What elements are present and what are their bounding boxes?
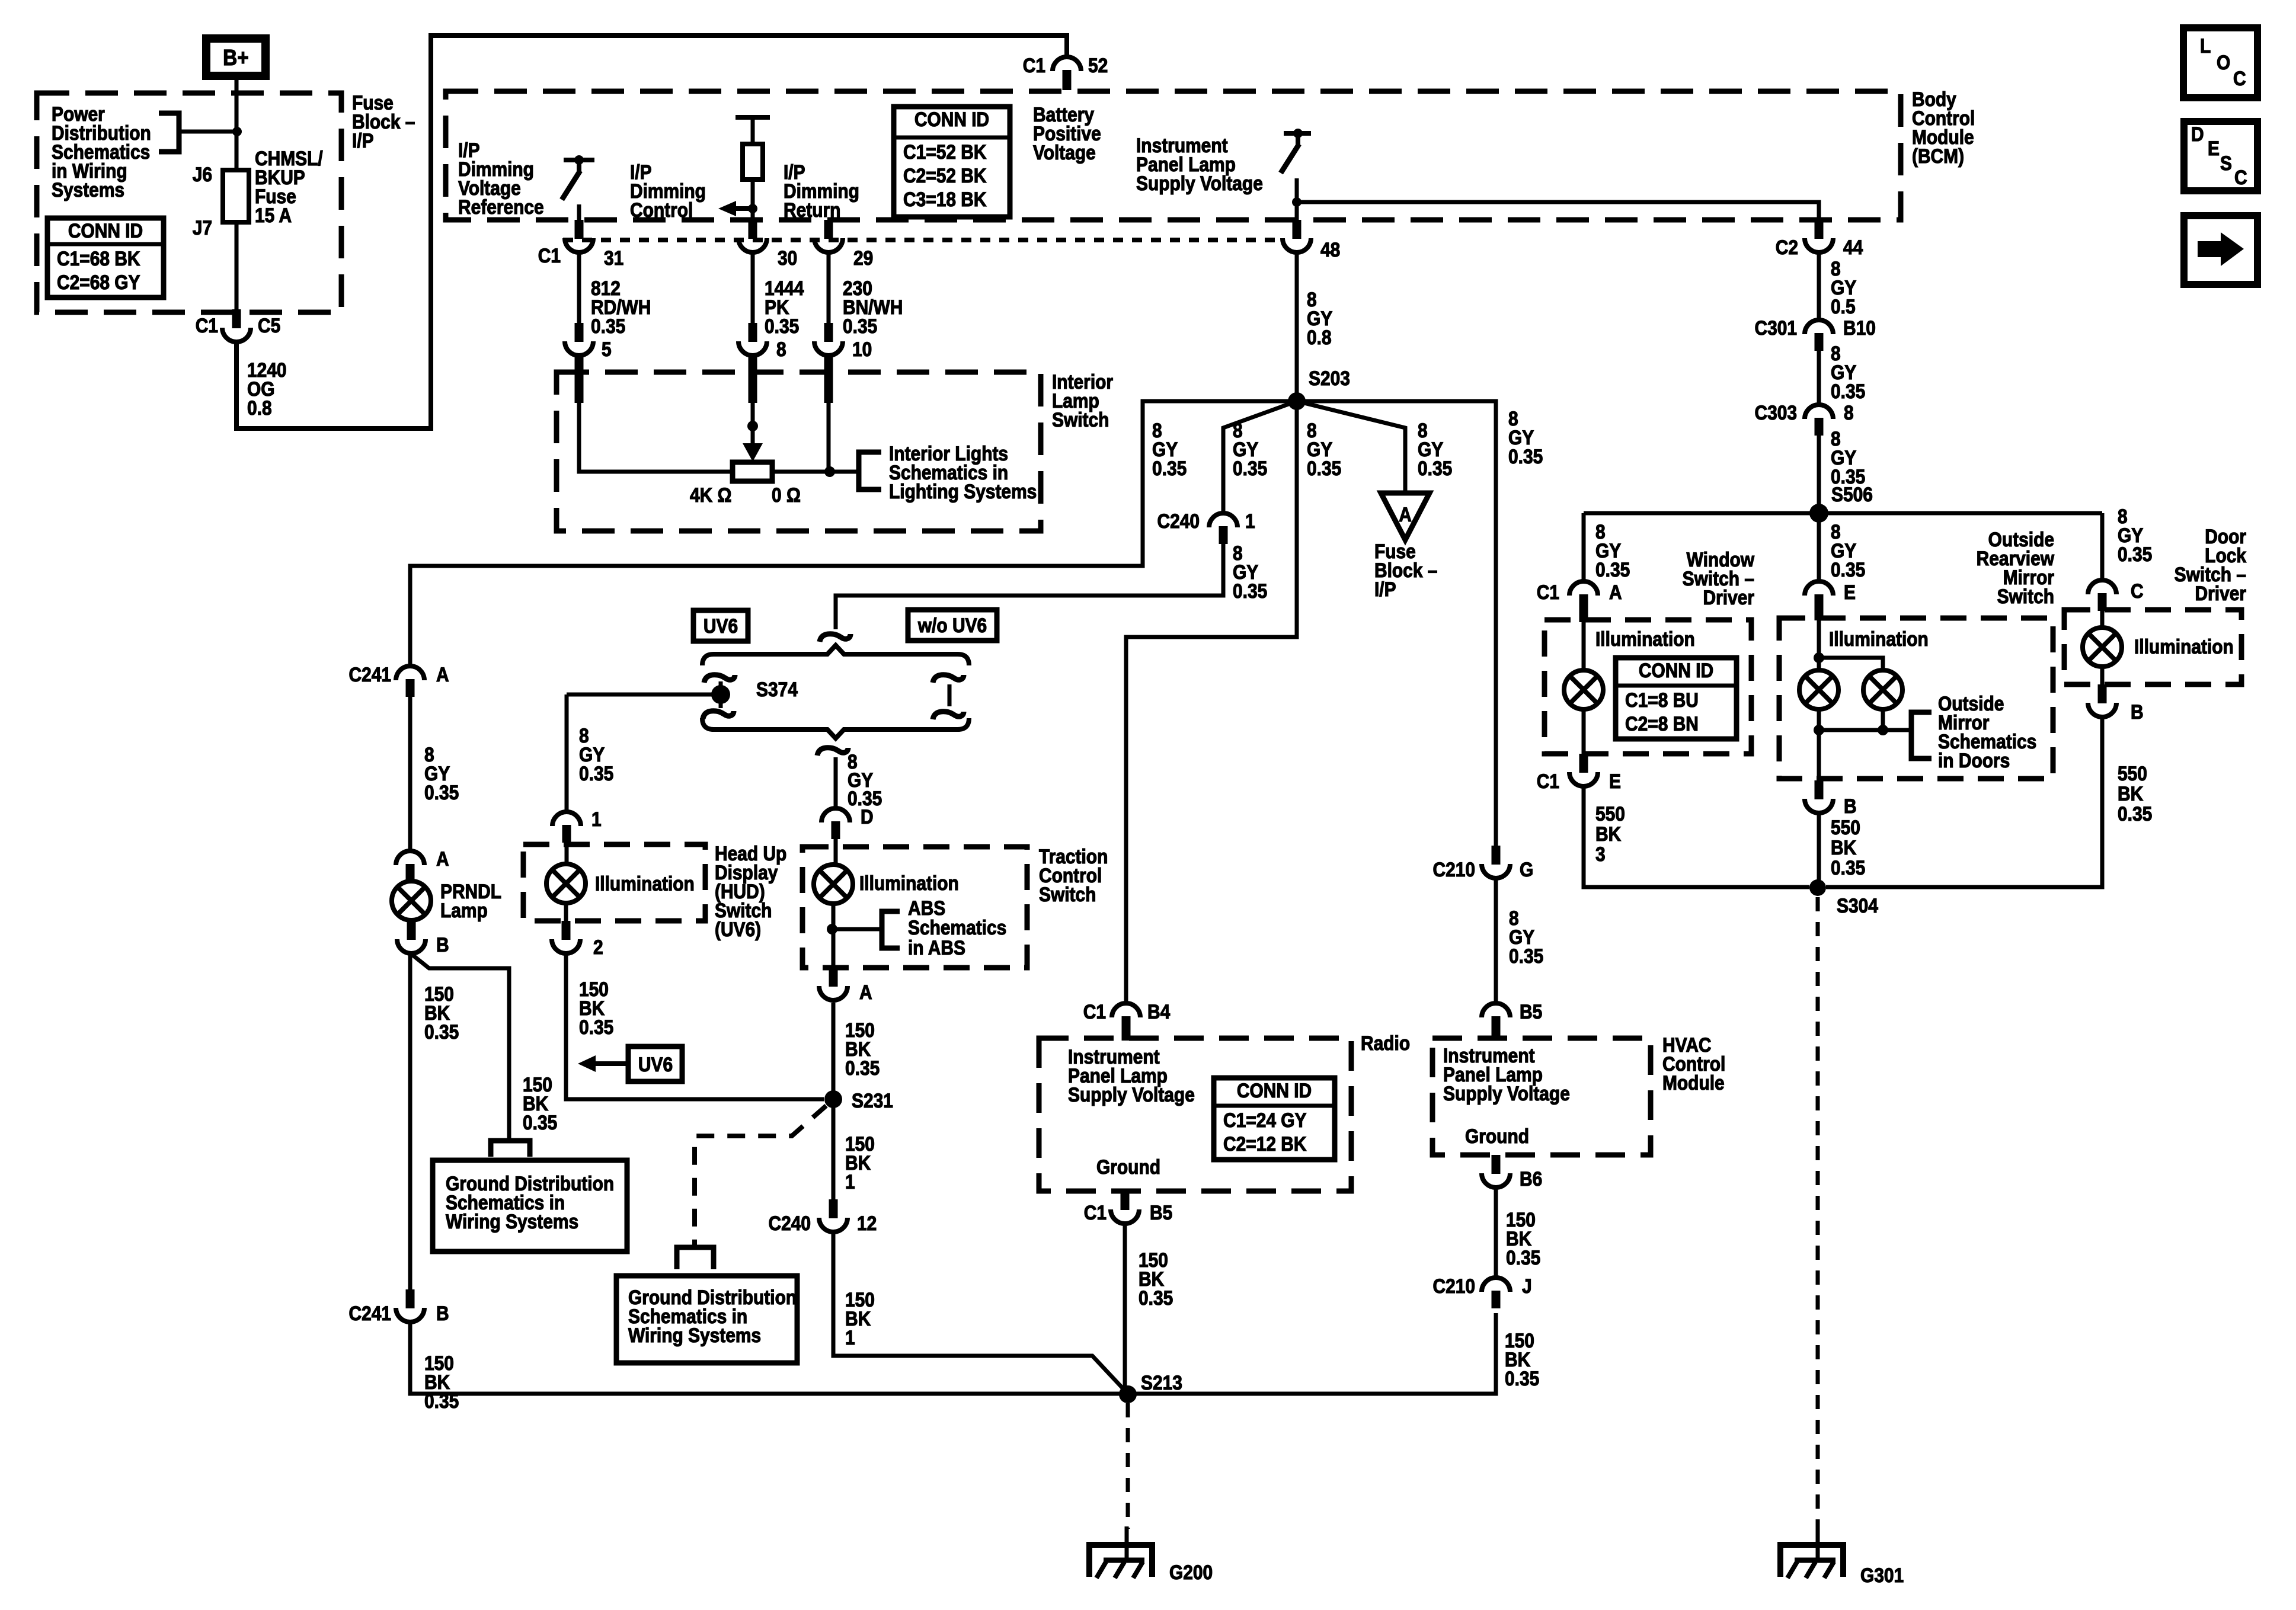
svg-text:Illumination: Illumination	[859, 872, 959, 894]
next page arrow box	[2184, 216, 2257, 284]
svg-text:J7: J7	[193, 216, 212, 239]
svg-text:0.35: 0.35	[1831, 856, 1865, 879]
svg-text:BK: BK	[2118, 782, 2143, 805]
wire label 150 BK 0.35 HUD ground	[579, 978, 613, 1038]
wire C210G to HVAC B5	[1494, 878, 1498, 1003]
wire BCM internal to C2 pin 44	[1297, 202, 1819, 220]
wire PRNDL B to ground bracket 1	[411, 954, 509, 1139]
break mark UV6 path top	[704, 675, 735, 683]
label instrument panel lamp supply voltage (BCM)	[1136, 134, 1263, 194]
wire label 150 BK 0.35 radio ground	[1139, 1249, 1173, 1309]
svg-text:A: A	[859, 981, 872, 1003]
svg-text:BK: BK	[1831, 836, 1856, 859]
svg-text:L: L	[2200, 34, 2211, 57]
svg-text:0.35: 0.35	[1233, 457, 1267, 479]
option brace top	[702, 645, 969, 665]
wire pin31 to lamp switch pin5	[577, 254, 581, 323]
svg-text:UV6: UV6	[638, 1053, 673, 1076]
svg-text:C2=8 BN: C2=8 BN	[1625, 712, 1699, 735]
fuse block reference triangle A	[1374, 493, 1437, 600]
fuse block I/P dashed box	[37, 91, 415, 312]
svg-text:Supply Voltage: Supply Voltage	[1136, 172, 1263, 194]
wire label 150 BK 0.35 HVAC ground	[1506, 1208, 1540, 1269]
wire label 8 GY 0.35 C303	[1831, 427, 1865, 488]
svg-text:Wiring Systems: Wiring Systems	[628, 1324, 761, 1346]
svg-text:Illumination: Illumination	[595, 872, 695, 895]
svg-text:Lamp: Lamp	[440, 899, 488, 921]
wire PRNDL B to C241 B	[408, 953, 412, 1289]
splice S203	[1288, 367, 1350, 410]
wire S203 branch to fuse block triangle	[1297, 401, 1405, 493]
wire w/o UV6 jumper	[948, 684, 952, 706]
body control module BCM dashed box	[446, 88, 1975, 220]
label battery positive voltage	[1033, 103, 1101, 164]
svg-text:A: A	[436, 847, 449, 870]
connector mirror switch B	[1805, 780, 1857, 817]
svg-text:O: O	[2217, 51, 2230, 73]
label I/P dimming voltage reference	[458, 139, 544, 218]
wire S506 to window switch A	[1582, 513, 1586, 581]
break mark w/o UV6 bottom	[933, 712, 964, 719]
svg-text:w/o UV6: w/o UV6	[917, 614, 987, 636]
fuse F CHMSL/BKUP 15A	[193, 147, 323, 239]
connector radio C1 B5	[1084, 1191, 1172, 1224]
svg-text:C2=52 BK: C2=52 BK	[903, 164, 986, 187]
wire branch to power distribution bracket	[179, 130, 236, 134]
connector HVAC B5	[1482, 1000, 1542, 1041]
ground G301	[1780, 1526, 1904, 1586]
svg-text:Module: Module	[1662, 1071, 1725, 1094]
svg-text:15 A: 15 A	[255, 204, 292, 226]
wire C240-12 to splice S213	[833, 1233, 1128, 1394]
connector C240 pin 1	[1157, 510, 1255, 544]
outside mirror schematics bracket	[1911, 692, 2036, 772]
svg-text:B: B	[436, 1302, 449, 1324]
svg-text:0.35: 0.35	[2118, 802, 2152, 825]
svg-text:S: S	[2220, 152, 2232, 174]
label window switch driver	[1683, 548, 1754, 609]
radio dashed box	[1039, 1032, 1410, 1191]
splice S231	[824, 1089, 893, 1112]
wire S231 to C240 pin12	[832, 1099, 836, 1199]
connector C241 pin A	[348, 663, 449, 697]
svg-text:J6: J6	[193, 163, 212, 185]
lamp traction illumination	[814, 839, 959, 968]
svg-text:E: E	[2208, 137, 2220, 159]
BCM pin 29 connector	[814, 220, 873, 269]
svg-text:C1: C1	[1084, 1201, 1107, 1224]
svg-text:C: C	[2131, 580, 2144, 602]
wire label 8 GY 0.35 C301	[1831, 342, 1865, 402]
connector C210 pin J	[1432, 1275, 1531, 1308]
svg-text:0.35: 0.35	[1505, 1367, 1539, 1390]
wire radio B5 to splice S213	[1123, 1223, 1127, 1394]
wire label 8 GY 0.35 C210G	[1509, 907, 1543, 967]
svg-text:C2: C2	[1776, 236, 1798, 258]
wire label 8 GY 0.35 door branch	[2118, 505, 2152, 565]
power distribution reference note	[52, 103, 151, 201]
svg-text:J: J	[1522, 1275, 1532, 1297]
traction control switch dashed box	[802, 845, 1108, 968]
svg-text:Control: Control	[630, 199, 693, 221]
wire label 8 GY 0.35 below C240-1	[1233, 542, 1267, 602]
svg-text:D: D	[861, 805, 874, 828]
label I/P dimming return	[784, 161, 859, 221]
w/o UV6 option tag	[908, 610, 997, 641]
connector radio C1 B4	[1083, 1000, 1171, 1041]
wire C301 to C303	[1817, 351, 1821, 405]
wire S203 branch to C240 pin1	[1223, 401, 1297, 513]
label outside rearview mirror switch	[1977, 528, 2054, 607]
svg-text:0.35: 0.35	[1152, 457, 1187, 479]
label I/P dimming control	[630, 161, 706, 221]
svg-text:G301: G301	[1860, 1564, 1904, 1586]
wire label 150 BK 1 below C240-12	[845, 1288, 875, 1349]
svg-text:C1=68 BK: C1=68 BK	[57, 247, 140, 270]
svg-text:Radio: Radio	[1361, 1032, 1410, 1054]
break mark UV6 path bottom	[703, 711, 734, 719]
wire label 8 GY 0.35 triangle branch	[1418, 419, 1452, 479]
lamp mirror illumination 1	[1799, 609, 1838, 709]
BCM pin 31 connector	[565, 220, 623, 269]
wire label 150 BK 0.35 PRNDL down	[424, 982, 459, 1043]
svg-text:0.35: 0.35	[1509, 945, 1543, 967]
svg-text:C1=52 BK: C1=52 BK	[903, 140, 986, 163]
resistor I/P dimming control (BCM internal)	[736, 117, 770, 209]
splice S374	[711, 678, 798, 708]
svg-text:8: 8	[776, 338, 786, 360]
wire label 150 BK 0.35 PRNDL right	[523, 1073, 557, 1134]
wire label 8 GY 0.35 C241A	[424, 743, 459, 804]
DESC reference box	[2184, 121, 2257, 191]
svg-text:C1: C1	[538, 244, 561, 267]
connector door lock switch B	[2088, 684, 2144, 723]
wire label 1240 OG 0.8	[247, 359, 287, 419]
wire pin29 to lamp switch pin10	[827, 254, 831, 323]
svg-text:A: A	[436, 663, 449, 686]
svg-text:0.35: 0.35	[523, 1111, 557, 1134]
wire C2-44 to C301	[1817, 254, 1821, 320]
svg-text:S203: S203	[1309, 367, 1350, 389]
svg-text:C1: C1	[1083, 1000, 1106, 1023]
svg-text:2: 2	[593, 936, 603, 958]
wire window E to splice S304	[1584, 786, 1809, 887]
connector HUD pin 1	[552, 808, 602, 843]
break mark option feed	[820, 634, 850, 642]
connector window switch C1 E	[1537, 754, 1621, 792]
UV6 direction tag with arrow	[578, 1046, 682, 1081]
svg-text:E: E	[1609, 770, 1621, 792]
svg-text:Illumination: Illumination	[2134, 635, 2234, 658]
wire label 8 GY 0.35 center branch	[1307, 419, 1341, 479]
connector window switch C1 A	[1537, 581, 1622, 622]
svg-text:0.35: 0.35	[579, 1016, 613, 1038]
door lock switch dashed box	[2064, 610, 2241, 684]
wire label 1444 PK 0.35	[765, 277, 804, 337]
wire label 812 RD/WH 0.35	[591, 277, 651, 337]
interior lamp switch dashed box	[557, 370, 1113, 531]
svg-text:52: 52	[1088, 54, 1108, 76]
splice S213	[1119, 1371, 1182, 1403]
wire option split to traction D	[834, 757, 838, 808]
svg-text:29: 29	[853, 247, 873, 269]
svg-text:C2=68 GY: C2=68 GY	[57, 271, 140, 293]
svg-text:0.35: 0.35	[845, 1057, 880, 1079]
svg-text:Wiring Systems: Wiring Systems	[446, 1210, 578, 1233]
HVAC control module dashed box	[1432, 1033, 1725, 1155]
svg-text:0.35: 0.35	[591, 315, 625, 337]
lamp HUD illumination	[546, 844, 698, 921]
CONN ID table radio	[1214, 1078, 1335, 1160]
svg-text:Voltage: Voltage	[1033, 141, 1096, 164]
wire mirror B to splice S304	[1817, 813, 1821, 887]
svg-text:0 Ω: 0 Ω	[772, 484, 801, 506]
svg-text:B: B	[436, 933, 449, 956]
lamp window switch illumination	[1564, 610, 1603, 754]
wire label 8 GY 0.8	[1307, 288, 1332, 348]
svg-text:Driver: Driver	[2195, 582, 2246, 604]
BCM C1 connector face dotted line	[563, 238, 1281, 242]
junction on B+ feed	[232, 127, 242, 136]
BCM pin 48 connector	[1283, 220, 1340, 261]
wire door lock B to splice S304	[1826, 716, 2102, 887]
svg-text:B5: B5	[1150, 1201, 1172, 1224]
svg-text:0.35: 0.35	[765, 315, 799, 337]
svg-text:C210: C210	[1432, 858, 1475, 881]
connector door lock switch C	[2088, 580, 2144, 611]
svg-text:12: 12	[857, 1212, 877, 1234]
wire label 550 BK 3	[1595, 802, 1625, 865]
svg-text:C303: C303	[1754, 401, 1797, 424]
wire traction A to splice S231	[832, 1003, 836, 1099]
svg-text:S213: S213	[1141, 1371, 1182, 1394]
svg-text:0.35: 0.35	[1139, 1286, 1173, 1309]
svg-text:0.35: 0.35	[579, 762, 613, 785]
svg-text:CONN ID: CONN ID	[1639, 659, 1713, 681]
svg-text:C1: C1	[1537, 581, 1559, 603]
svg-text:4K Ω: 4K Ω	[690, 484, 732, 506]
svg-text:48: 48	[1320, 238, 1340, 261]
connector pin 8 interior lamp switch	[738, 323, 786, 360]
svg-text:Reference: Reference	[458, 196, 544, 218]
ground distribution bracket 1	[491, 1141, 530, 1157]
svg-text:C301: C301	[1754, 316, 1797, 339]
wire label 8 GY 0.35 left branch	[1152, 419, 1187, 479]
svg-text:Supply Voltage: Supply Voltage	[1068, 1083, 1195, 1106]
wire label 8 GY 0.35 S374 to HUD	[579, 724, 613, 785]
wire label 150 BK 1 below S231	[845, 1132, 875, 1193]
svg-text:(BCM): (BCM)	[1912, 145, 1964, 167]
svg-text:Schematics: Schematics	[908, 916, 1006, 939]
wire HUD pin2 to splice S231	[566, 953, 824, 1099]
wire BCM pin 48 feed and junction	[1292, 197, 1302, 220]
svg-text:CONN ID: CONN ID	[914, 108, 989, 130]
svg-text:0.35: 0.35	[1506, 1246, 1540, 1269]
svg-text:C1: C1	[1537, 770, 1559, 792]
svg-text:I/P: I/P	[352, 129, 374, 152]
svg-text:1: 1	[1245, 510, 1255, 532]
svg-text:C210: C210	[1432, 1275, 1475, 1297]
svg-text:0.35: 0.35	[1508, 445, 1543, 468]
wire S203 center branch to radio B4	[1126, 401, 1297, 1003]
wire label 8 GY 0.35 right branch	[1508, 407, 1543, 468]
connector C303 pin 8	[1754, 401, 1853, 436]
svg-text:0.35: 0.35	[1307, 457, 1341, 479]
break mark w/o UV6 top	[933, 675, 964, 683]
svg-text:B5: B5	[1520, 1000, 1542, 1023]
connector HUD pin 2	[552, 921, 603, 958]
svg-text:Ground: Ground	[1465, 1125, 1529, 1147]
svg-text:0.8: 0.8	[1307, 326, 1332, 348]
svg-text:0.5: 0.5	[1831, 295, 1856, 318]
UV6 option tag	[693, 610, 748, 641]
wire label 8 GY 0.35 mirror branch	[1831, 520, 1865, 581]
svg-text:3: 3	[1595, 843, 1606, 865]
svg-text:0.35: 0.35	[1233, 580, 1267, 602]
wire pin5 into lamp switch	[575, 356, 733, 472]
wire S203 left branch to C241 A	[410, 401, 1297, 666]
svg-text:C5: C5	[258, 314, 280, 337]
LOC reference box	[2183, 28, 2257, 98]
svg-text:G200: G200	[1169, 1561, 1213, 1583]
svg-text:550: 550	[1595, 802, 1625, 825]
mirror switch dashed box	[1779, 618, 2053, 779]
svg-text:C3=18 BK: C3=18 BK	[903, 188, 986, 210]
splice S304	[1809, 879, 1878, 917]
ABS schematics bracket	[882, 897, 1006, 959]
svg-text:UV6: UV6	[703, 614, 738, 637]
wire label 8 GY 0.35 window branch	[1595, 520, 1630, 581]
svg-text:44: 44	[1843, 236, 1863, 258]
svg-text:Lighting Systems: Lighting Systems	[889, 480, 1037, 502]
wire pin48 to splice S203	[1295, 254, 1299, 401]
svg-text:Switch: Switch	[1039, 883, 1096, 905]
wire B+ to fuse	[235, 78, 239, 170]
lamp PRNDL	[392, 880, 501, 921]
wire label 550 BK 0.35 mirror	[1831, 816, 1865, 879]
svg-text:Ground: Ground	[1096, 1156, 1160, 1178]
dashed option wire S231 to ground distribution	[695, 1106, 826, 1245]
CONN ID table BCM	[894, 107, 1010, 217]
svg-text:in ABS: in ABS	[908, 936, 965, 959]
svg-text:C2=12 BK: C2=12 BK	[1223, 1132, 1306, 1155]
svg-text:C1=24 GY: C1=24 GY	[1223, 1109, 1307, 1131]
svg-text:B6: B6	[1520, 1167, 1542, 1190]
svg-text:S304: S304	[1837, 894, 1878, 917]
svg-text:A: A	[1399, 503, 1412, 526]
svg-text:0.35: 0.35	[1418, 457, 1452, 479]
connector C301 B10	[1754, 316, 1875, 351]
connector PRNDL pin A	[396, 847, 449, 882]
wire S506 to mirror switch E	[1817, 513, 1821, 581]
connector HVAC B6	[1482, 1155, 1542, 1190]
window switch dashed box	[1544, 620, 1751, 754]
ground distribution schematics box 1	[433, 1160, 627, 1251]
wire label 230 BN/WH 0.35	[843, 277, 903, 337]
svg-text:G: G	[1520, 858, 1533, 881]
svg-text:CONN ID: CONN ID	[1237, 1079, 1312, 1102]
connector mirror switch E	[1805, 581, 1856, 620]
wire pin10 to pot output	[824, 356, 836, 477]
potentiometer interior lamp dimmer	[690, 462, 801, 506]
svg-text:C241: C241	[348, 663, 391, 686]
svg-text:S231: S231	[852, 1089, 893, 1112]
wire pin30 to lamp switch pin8	[751, 254, 755, 323]
ground distribution schematics box 2	[616, 1276, 797, 1363]
svg-text:(UV6): (UV6)	[715, 918, 761, 940]
svg-text:Supply Voltage: Supply Voltage	[1443, 1082, 1570, 1105]
svg-text:Systems: Systems	[52, 178, 124, 201]
svg-text:B: B	[1844, 795, 1857, 817]
connector C1 pin 52 at BCM	[1023, 54, 1108, 90]
svg-text:0.8: 0.8	[247, 396, 272, 419]
svg-text:C1: C1	[1023, 54, 1045, 76]
wire C241A to PRNDL lamp A	[408, 697, 412, 851]
svg-text:E: E	[1844, 581, 1856, 603]
wire label 550 BK 0.35 door lock	[2118, 762, 2152, 825]
svg-text:0.35: 0.35	[843, 315, 877, 337]
power feed B+ terminal	[206, 39, 266, 76]
connector pin 10 interior lamp switch	[814, 323, 872, 360]
wire HVAC B6 to C210 J	[1494, 1187, 1498, 1278]
dashed wire S213 to G200	[1126, 1403, 1130, 1529]
svg-text:C1: C1	[196, 314, 218, 337]
option brace bottom	[702, 718, 969, 738]
svg-text:31: 31	[604, 247, 623, 269]
BCM C2 pin 44 connector	[1776, 220, 1863, 258]
switch instrument panel lamp supply	[1281, 129, 1311, 202]
svg-text:5: 5	[602, 338, 612, 360]
wiper arrow I/P dimming control	[718, 201, 757, 220]
wire S203 right branch to C210 G	[1297, 401, 1496, 846]
CONN ID table fuse block	[47, 218, 164, 297]
label door lock switch driver	[2175, 525, 2247, 604]
connector traction switch pin D	[821, 805, 874, 839]
lamp door lock illumination	[2083, 608, 2122, 684]
wire C5 to BCM C1 pin 52	[236, 36, 1067, 428]
svg-text:1: 1	[845, 1170, 855, 1193]
wire S506 distribution bus	[1584, 511, 2102, 516]
svg-text:C: C	[2233, 67, 2246, 89]
connector pin 5 interior lamp switch	[565, 323, 612, 360]
ground distribution bracket 2	[677, 1247, 714, 1269]
wire C240-1 to option split	[836, 544, 1223, 629]
wire label 150 BK 0.35 C210J	[1505, 1329, 1539, 1390]
CONN ID table window switch	[1616, 658, 1737, 739]
svg-text:I/P: I/P	[1374, 578, 1396, 600]
svg-text:30: 30	[778, 247, 797, 269]
svg-text:0.35: 0.35	[1831, 380, 1865, 402]
BCM pin 30 connector	[738, 220, 797, 269]
svg-text:0.35: 0.35	[424, 1020, 459, 1043]
svg-text:10: 10	[852, 338, 872, 360]
wire pot output to interior lights bracket	[772, 470, 859, 474]
power distribution bracket	[159, 113, 179, 152]
wire mirror lamps to bracket	[1814, 709, 1911, 780]
svg-text:C240: C240	[768, 1212, 811, 1234]
svg-text:S506: S506	[1831, 483, 1873, 505]
svg-text:0.35: 0.35	[1595, 558, 1630, 581]
wire label 150 BK 0.35 traction ground	[845, 1019, 880, 1079]
svg-text:0.35: 0.35	[424, 781, 459, 804]
wire C241B to splice S213 bus	[410, 1313, 1496, 1394]
svg-text:in Doors: in Doors	[1938, 749, 2010, 772]
wire S374 to HUD pin1	[567, 694, 721, 812]
dashed wire S304 to G301	[1816, 897, 1820, 1529]
svg-text:C1=8 BU: C1=8 BU	[1625, 689, 1699, 711]
connector C240 pin 12	[768, 1199, 877, 1234]
svg-text:CONN ID: CONN ID	[68, 219, 143, 242]
